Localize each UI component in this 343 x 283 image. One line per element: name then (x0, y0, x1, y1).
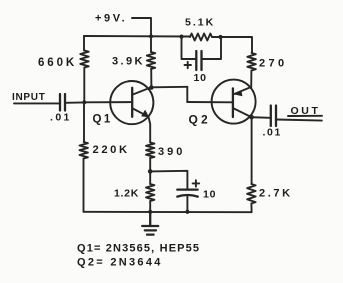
resistor R 390 (146, 143, 154, 159)
wire coupling vertical (186, 87, 188, 102)
svg-text:3.9K: 3.9K (112, 56, 145, 68)
resistor R 1.2K (146, 184, 154, 201)
wire 390 to bypass node (149, 158, 151, 171)
wire 2.7K to bottom rail (250, 204, 252, 213)
wire output lead (277, 120, 322, 121)
node Q2 collector (249, 115, 254, 120)
Q2 collector stroke (234, 108, 252, 117)
svg-text:5.1K: 5.1K (185, 17, 215, 29)
Q1 emitter stroke with NPN arrow (133, 109, 148, 117)
Q2 base bar (232, 88, 234, 117)
node input junction (82, 100, 86, 104)
resistor R 2.7K (247, 184, 255, 204)
svg-text:.01: .01 (50, 112, 72, 124)
wire +9V feed (132, 18, 151, 36)
Q1 base lead (84, 101, 132, 103)
wire bypass cap to rail (186, 197, 188, 212)
node bypass cap ground (185, 210, 189, 214)
wire 220K to bottom rail (83, 159, 85, 212)
ground symbol (142, 212, 158, 235)
svg-text:+9V.: +9V. (95, 13, 127, 25)
polarity + of bypass cap (193, 180, 200, 186)
wire bypass node to 1.2K (149, 171, 151, 184)
wire Q1 emitter down (149, 117, 151, 142)
svg-text:390: 390 (158, 146, 185, 158)
resistor R 220K (80, 142, 88, 159)
polarity + of feedback cap (185, 62, 192, 68)
wire input node to 220K (83, 102, 85, 142)
svg-text:10: 10 (203, 189, 216, 201)
capacitor C .01 input (60, 94, 65, 111)
svg-text:660K: 660K (38, 57, 77, 69)
wire bypass tap (150, 171, 187, 189)
wire Q2 collector down (251, 117, 253, 183)
svg-text:270: 270 (259, 58, 288, 70)
wire cap loop left (182, 37, 197, 59)
svg-text:220K: 220K (93, 144, 130, 156)
resistor R 3.9K (147, 52, 155, 69)
svg-text:10: 10 (194, 72, 207, 84)
node 5.1K right (218, 35, 222, 39)
Q1 collector stroke (133, 87, 152, 94)
node emitter bypass junction (148, 169, 153, 174)
capacitor C .01 output (271, 106, 276, 127)
svg-text:Q2: Q2 (189, 113, 211, 127)
wire top rail left (84, 35, 190, 38)
svg-text:Q1: Q1 (93, 114, 113, 126)
wire 270 to Q2 emitter (250, 71, 252, 89)
capacitor C 10uF feedback (196, 51, 201, 70)
wire coupling horizontal upper (151, 86, 187, 89)
node 5.1K left (179, 35, 183, 39)
wire rail to 3.9K (150, 36, 152, 52)
wire bottom rail (84, 211, 252, 213)
wire left column upper (83, 36, 85, 51)
wire 660K to input node (83, 68, 85, 103)
node ground junction (148, 210, 152, 214)
node +9V junction (149, 34, 153, 38)
transistor Q2 circle (212, 80, 256, 124)
svg-text:.01: .01 (263, 127, 282, 139)
svg-text:INPUT: INPUT (12, 92, 46, 103)
wire top rail right (212, 37, 252, 53)
wire collector to output cap (252, 116, 270, 119)
resistor R 660K (80, 51, 88, 68)
Q2 emitter stroke with PNP arrow (234, 87, 251, 94)
resistor R 5.1K (190, 34, 212, 41)
wire cap loop right (202, 37, 222, 59)
wire OUT underline (288, 115, 322, 117)
resistor R 270 (247, 53, 255, 71)
transistor Q1 circle (110, 81, 153, 124)
Q1 base bar (131, 88, 133, 117)
svg-text:Q2= 2N3644: Q2= 2N3644 (77, 257, 163, 269)
wire 1.2K to ground rail (149, 201, 151, 212)
wire 3.9K to collector node (150, 69, 152, 87)
wire input lead (14, 102, 59, 104)
svg-text:Q1= 2N3565, HEP55: Q1= 2N3565, HEP55 (77, 243, 200, 255)
svg-text:2.7K: 2.7K (259, 188, 293, 200)
node Q1 collector (149, 85, 154, 90)
wire coupling to Q2 base (187, 101, 233, 103)
wire input cap to base node (66, 101, 85, 103)
capacitor C 10uF emitter bypass (177, 188, 197, 190)
svg-text:1.2K: 1.2K (114, 188, 139, 200)
